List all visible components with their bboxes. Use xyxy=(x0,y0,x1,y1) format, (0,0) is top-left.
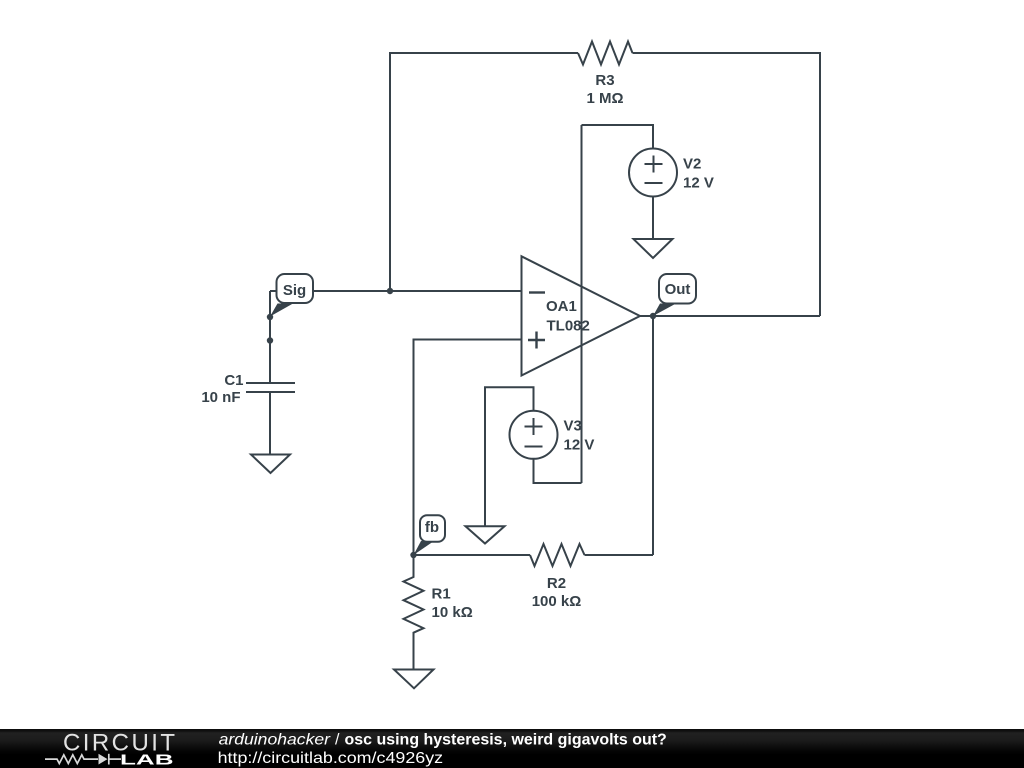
svg-text:OA1: OA1 xyxy=(546,298,577,315)
svg-text:10 nF: 10 nF xyxy=(201,389,240,406)
wire: supply vertical through op-amp xyxy=(581,125,583,483)
resistor R1 xyxy=(404,555,424,670)
voltage source V2 xyxy=(629,149,677,197)
resistor R2 xyxy=(530,544,585,566)
op-amp OA1 xyxy=(522,256,641,375)
wire: V3 top lead and loop to ground xyxy=(485,387,534,526)
label R3 value xyxy=(586,72,623,107)
label R1 value xyxy=(432,586,473,622)
wire: V2 bottom lead xyxy=(652,197,654,240)
svg-text:fb: fb xyxy=(425,519,439,536)
svg-text:12 V: 12 V xyxy=(564,437,595,454)
ground below V2 xyxy=(634,239,673,258)
wire: capacitor bottom lead xyxy=(269,392,271,455)
capacitor C1 xyxy=(246,383,295,392)
svg-text:osc using hysteresis, weird gi: osc using hysteresis, weird gigavolts ou… xyxy=(345,732,667,749)
svg-text:arduinohacker: arduinohacker xyxy=(219,732,331,749)
wire: non-inverting input horizontal and vertical to fb xyxy=(414,340,522,556)
wire: output horizontal xyxy=(640,315,820,317)
junction node at output xyxy=(650,313,656,319)
svg-text:TL082: TL082 xyxy=(547,318,590,335)
node flag fb xyxy=(414,515,446,555)
svg-text:/: / xyxy=(335,732,340,749)
label C1 value xyxy=(201,372,243,406)
wire: R2 right lead xyxy=(585,554,654,556)
label V2 value xyxy=(683,156,714,192)
junction node fb xyxy=(410,552,416,558)
svg-text:100 kΩ: 100 kΩ xyxy=(532,593,582,610)
svg-text:R2: R2 xyxy=(547,575,566,592)
wire: feedback loop left vertical (R3 left lead down to inverting input) xyxy=(390,53,578,291)
resistor R3 xyxy=(578,42,633,65)
ground below C1 xyxy=(251,455,290,474)
wire: R3 right lead and right vertical down to output xyxy=(633,53,821,316)
junction dot lower on Sig wire xyxy=(267,337,273,343)
wire: V3 bottom lead to supply vertical xyxy=(534,459,582,483)
svg-text:10 kΩ: 10 kΩ xyxy=(432,604,473,621)
wire: V2 loop top horizontal and lead xyxy=(582,125,654,149)
wire: Sig vertical to capacitor xyxy=(269,291,271,383)
node flag Out xyxy=(653,274,696,316)
svg-text:V3: V3 xyxy=(564,418,582,435)
label R2 value xyxy=(532,575,582,610)
svg-text:V2: V2 xyxy=(683,156,701,173)
svg-text:Sig: Sig xyxy=(283,282,306,299)
node flag Sig xyxy=(270,274,313,317)
wire: inverting input horizontal xyxy=(270,290,522,292)
wire: fb horizontal left lead of R2 xyxy=(414,554,531,556)
svg-text:http://circuitlab.com/c4926yz: http://circuitlab.com/c4926yz xyxy=(218,750,444,767)
wire: output vertical down to R2 xyxy=(652,316,654,555)
svg-text:Out: Out xyxy=(665,281,691,298)
CircuitLab logo symbol row: resistor, diode, LAB xyxy=(45,754,121,765)
svg-text:12 V: 12 V xyxy=(683,175,714,192)
voltage source V3 xyxy=(510,411,558,459)
ground below R1 xyxy=(394,670,434,689)
svg-text:1 MΩ: 1 MΩ xyxy=(586,90,623,107)
junction dot upper on Sig wire xyxy=(267,314,273,320)
svg-text:C1: C1 xyxy=(224,372,243,389)
svg-text:R3: R3 xyxy=(595,72,614,89)
label V3 value xyxy=(564,418,595,454)
junction node at R3 left / inverting input xyxy=(387,288,393,294)
svg-text:R1: R1 xyxy=(432,586,451,603)
ground below V3 loop xyxy=(466,526,505,543)
svg-text:LAB: LAB xyxy=(120,751,174,768)
